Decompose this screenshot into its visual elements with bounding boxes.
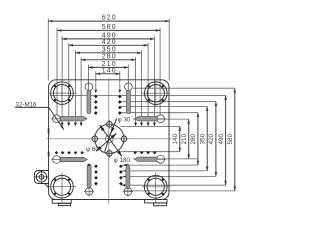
vertical slot top-left <box>85 83 132 195</box>
phi30 hole west <box>92 136 98 142</box>
center hole (phi 60) <box>105 135 113 143</box>
phi30 hole north <box>107 121 113 127</box>
svg-text:580: 580 <box>102 24 117 31</box>
dimension line 350 (right) <box>206 107 208 171</box>
plate horizontal centerline <box>47 138 171 140</box>
dimension line 210 (top) <box>88 66 128 68</box>
diameter labels <box>86 116 131 163</box>
dimension line 420 (right) <box>215 102 217 177</box>
phi30 hole east <box>121 136 127 142</box>
dimension line 490 (right) <box>225 96 227 186</box>
horizontal slot circle crosshairs <box>51 119 166 160</box>
vertical slot bottom-right <box>124 188 132 196</box>
svg-text:350: 350 <box>199 133 206 144</box>
small circle crosshairs <box>90 120 128 158</box>
svg-text:580: 580 <box>227 133 234 144</box>
horizontal slot right-lower <box>157 155 165 163</box>
dimension line 140 (top) <box>96 73 120 75</box>
horizontal slot left-lower <box>53 156 61 164</box>
bottom slot circle crosshairs <box>84 186 133 196</box>
center locating ring circle (phi 180 bolt circle) <box>95 124 124 153</box>
edge slot marks <box>48 129 50 157</box>
tapped hole pattern (32-M16 diamonds) <box>55 95 157 186</box>
svg-text:280: 280 <box>102 53 117 60</box>
phi30 hole south <box>107 151 113 157</box>
svg-text:140: 140 <box>102 67 117 74</box>
dimension line 620 (top) <box>48 20 169 22</box>
svg-text:210: 210 <box>181 133 188 144</box>
top dimension texts <box>102 15 117 75</box>
dimension line 580 (top) <box>57 29 160 31</box>
dimension line 490 (top) <box>62 38 154 40</box>
top dimension lines 620..140 <box>48 21 169 74</box>
horizontal slot right-upper <box>157 115 165 123</box>
svg-text:φ 60: φ 60 <box>86 146 99 153</box>
dimension line 580 (right) <box>234 88 236 191</box>
svg-text:350: 350 <box>102 46 117 53</box>
dimension line 280 (right) <box>197 113 199 165</box>
platen plate outline <box>49 80 169 200</box>
svg-text:φ 180: φ 180 <box>114 157 131 164</box>
top dimension extension lines <box>48 19 169 125</box>
dimension line 350 (top) <box>75 52 141 54</box>
svg-text:620: 620 <box>102 15 117 22</box>
column tip arrows <box>61 90 156 127</box>
dimension line 140 (right) <box>179 126 181 151</box>
right dimension extension rows <box>50 88 235 191</box>
32-M16 label and leader <box>15 101 64 129</box>
right dimension lines 140..580 <box>180 88 235 191</box>
svg-text:490: 490 <box>218 133 225 144</box>
tie-bar crosshairs <box>48 79 171 202</box>
tie-bar flange dots <box>54 85 164 195</box>
vertical slot bottom-left <box>85 188 92 195</box>
dimension line 280 (top) <box>81 59 136 61</box>
left arrow on row 185.2 <box>122 184 126 187</box>
svg-text:420: 420 <box>208 133 215 144</box>
mounting feet <box>52 200 167 206</box>
tie-bar hole top-left <box>51 82 74 105</box>
tie-bar hole bottom-right <box>144 176 167 199</box>
diameter leader lines <box>96 118 122 156</box>
right dimension texts <box>172 133 234 144</box>
svg-text:420: 420 <box>102 39 117 46</box>
dimension line 210 (right) <box>188 119 190 159</box>
tie-bar hole top-right <box>145 82 168 105</box>
tie-bar hole bottom-left <box>51 175 74 198</box>
svg-text:φ 30: φ 30 <box>118 116 131 123</box>
dimension line 420 (top) <box>69 44 148 46</box>
svg-text:280: 280 <box>190 133 197 144</box>
side bracket fitting <box>34 171 48 188</box>
svg-text:140: 140 <box>172 133 179 144</box>
vertical slot top-right <box>125 83 133 91</box>
horizontal slot left-upper <box>53 115 165 163</box>
plate vertical centerline <box>108 78 110 204</box>
